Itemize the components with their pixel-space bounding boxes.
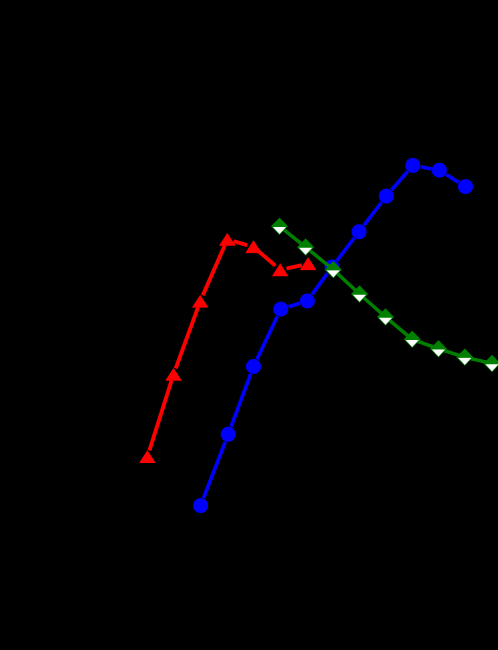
- blue data series: line segments with gap to symbols: [204, 167, 459, 498]
- green diamond marker 8: [456, 349, 473, 366]
- blue line segment 6: [337, 238, 354, 261]
- blue line segment 1: [204, 442, 226, 498]
- white half-fill of green diamond 8: [458, 358, 471, 365]
- blue circle marker 2: [221, 427, 236, 442]
- red line segment 3: [203, 246, 225, 296]
- white half-fill of green diamond 7: [432, 350, 445, 357]
- red data series: line segments with gap to symbols: [149, 241, 301, 450]
- red line segment 2: [176, 307, 198, 368]
- white half-fill of green diamond 6: [406, 340, 419, 347]
- blue line segment 2: [231, 374, 251, 427]
- blue line segment 10: [446, 174, 459, 182]
- green series polyline: [280, 226, 493, 363]
- green diamond marker 7: [430, 340, 447, 357]
- green data series: solid line behind symbols: [280, 226, 493, 363]
- blue line segment 3: [257, 316, 278, 359]
- blue line segment 8: [392, 172, 408, 191]
- white half-fill of green diamond 9: [485, 364, 498, 371]
- white half-fill of green diamond 5: [379, 318, 392, 325]
- blue line segment 7: [364, 203, 382, 226]
- white half-fill of green diamond 2: [299, 248, 312, 255]
- red triangle marker 3: [192, 295, 209, 308]
- blue circle marker 1: [193, 498, 208, 513]
- green diamond marker 2: [297, 238, 314, 255]
- white half-fill of green diamond 1: [273, 227, 286, 234]
- red triangle marker 7: [300, 257, 317, 270]
- white half-fill of green diamond 3: [327, 270, 340, 277]
- red triangle marker 2: [165, 368, 182, 381]
- blue line segment 9: [421, 167, 432, 169]
- green diamond marker 3: [325, 261, 342, 278]
- blue circle marker 3: [246, 359, 261, 374]
- green diamond marker 1: [271, 218, 288, 235]
- red line segment 4: [234, 241, 248, 245]
- green diamond marker 9: [484, 355, 498, 372]
- blue circle marker 5: [300, 294, 315, 309]
- blue circle marker 7: [352, 224, 367, 239]
- blue circle marker 6: [325, 260, 340, 275]
- green diamond marker 4: [351, 285, 368, 302]
- blue circle marker 9: [405, 158, 420, 173]
- blue circle marker 4: [273, 302, 288, 317]
- white half-fill of green diamond 4: [353, 295, 366, 302]
- red line segment 1: [149, 381, 171, 451]
- red line segment 5: [258, 251, 275, 266]
- blue line segment 5: [312, 274, 327, 295]
- red triangle marker 5: [245, 240, 262, 253]
- blue circle marker 10: [432, 163, 447, 178]
- red triangle marker 6: [272, 263, 289, 276]
- red triangle marker 1: [139, 450, 156, 463]
- blue circle marker 11: [458, 179, 473, 194]
- red triangle marker 4: [219, 233, 236, 246]
- blue circle marker 8: [379, 189, 394, 204]
- green diamond marker 5: [377, 308, 394, 325]
- green diamond marker 6: [404, 331, 421, 348]
- red line segment 6: [287, 265, 302, 268]
- blue line segment 4: [289, 303, 300, 307]
